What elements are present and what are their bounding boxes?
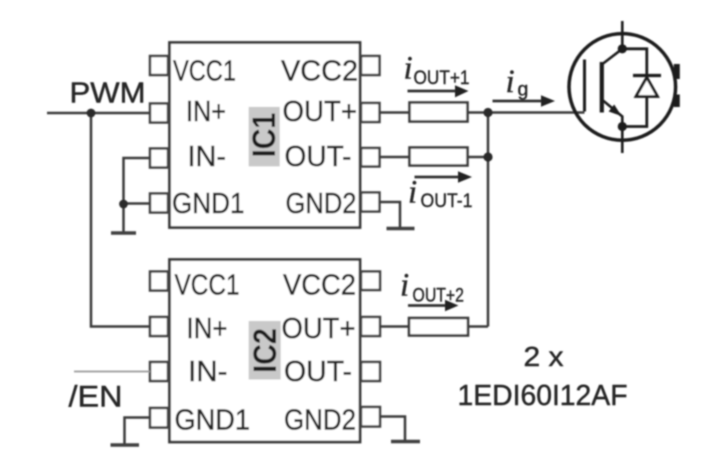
svg-text:2 x: 2 x [524,341,564,372]
svg-text:VCC2: VCC2 [281,56,358,88]
svg-text:OUT-: OUT- [285,141,352,173]
svg-text:OUT+: OUT+ [283,96,358,128]
svg-text:VCC1: VCC1 [175,270,240,302]
svg-text:IN+: IN+ [186,96,226,128]
svg-text:OUT+2: OUT+2 [413,285,465,307]
svg-text:i: i [400,268,409,304]
svg-text:OUT+: OUT+ [282,313,356,345]
svg-text:PWM: PWM [70,78,146,110]
svg-text:VCC2: VCC2 [283,270,356,302]
svg-text:IN+: IN+ [187,313,228,345]
svg-text:i: i [404,51,413,87]
svg-text:GND2: GND2 [284,405,356,437]
svg-text:OUT-1: OUT-1 [421,190,473,212]
svg-text:GND1: GND1 [172,188,245,220]
svg-text:GND1: GND1 [175,405,251,437]
svg-text:IN-: IN- [188,356,228,388]
svg-text:IN-: IN- [188,141,227,173]
svg-text:OUT+1: OUT+1 [414,67,470,89]
svg-text:IC1: IC1 [246,113,282,158]
svg-text:VCC1: VCC1 [173,56,236,88]
svg-text:i: i [506,64,515,100]
svg-text:OUT-: OUT- [284,356,352,388]
svg-text:1EDI60I12AF: 1EDI60I12AF [458,380,628,412]
svg-text:GND2: GND2 [286,188,357,220]
svg-text:/EN: /EN [69,381,123,414]
svg-text:IC2: IC2 [247,328,283,373]
svg-text:g: g [518,79,529,101]
svg-text:i: i [408,175,417,211]
